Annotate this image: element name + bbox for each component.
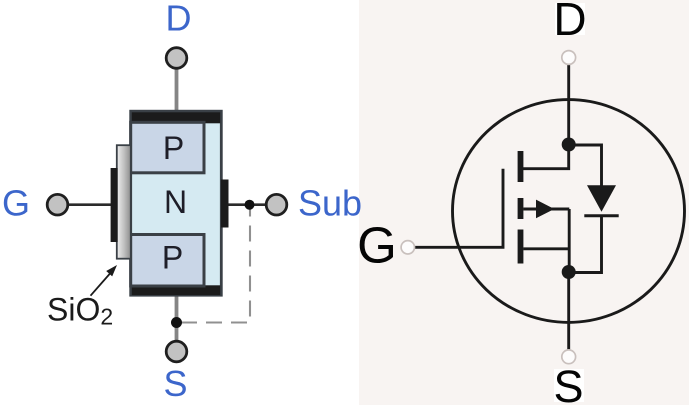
svg-text:N: N [164,184,187,220]
svg-text:P: P [163,130,184,166]
svg-text:G: G [2,183,30,224]
svg-text:G: G [357,216,397,273]
svg-text:D: D [166,0,192,39]
svg-text:S: S [163,363,187,404]
svg-text:P: P [162,240,183,276]
svg-text:D: D [553,0,586,45]
svg-text:S: S [553,361,583,405]
svg-text:Sub: Sub [298,183,362,224]
